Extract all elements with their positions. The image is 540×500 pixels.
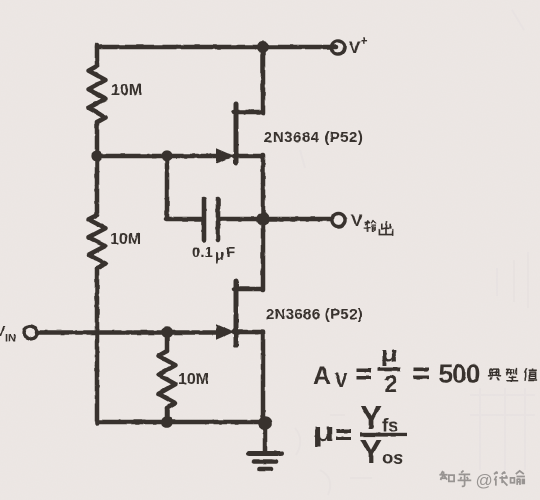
resistor R2 10M (middle left)	[89, 215, 106, 268]
svg-text:10M: 10M	[110, 231, 141, 248]
watermark hanzi 筏	[494, 471, 508, 485]
svg-text:@: @	[476, 471, 493, 490]
wire: left rail middle segment	[95, 122, 100, 215]
wire: output lead	[263, 217, 331, 222]
junction node: bottom rail / R3	[161, 416, 173, 428]
resistor R1 10M (upper left)	[89, 66, 106, 122]
wire: top V+ rail	[97, 45, 336, 50]
watermark 知乎@筏喻	[439, 471, 525, 487]
svg-text:A: A	[313, 362, 331, 390]
formula mu = Yfs/Yos	[313, 399, 408, 470]
transistor Q2 2N3686 channel bar	[234, 281, 239, 345]
ground symbol	[249, 454, 281, 470]
terminal V output	[332, 213, 345, 226]
wire: gate feed of Q1	[97, 154, 218, 159]
transistor Q2 gate arrow	[216, 324, 234, 340]
svg-text:fs: fs	[382, 415, 398, 436]
svg-text:2N3686 (P52): 2N3686 (P52)	[266, 306, 363, 323]
label 型 (hanzi typical)	[506, 368, 518, 381]
svg-text:IN: IN	[5, 333, 16, 345]
terminal V+	[331, 41, 344, 54]
label 出 (output hanzi 2)	[379, 221, 392, 235]
svg-text:μ: μ	[313, 417, 335, 447]
svg-text:+: +	[360, 33, 368, 48]
label 典 (hanzi typical)	[488, 369, 501, 381]
transistor Q2 drain lead	[234, 218, 263, 290]
watermark hanzi 喻	[511, 471, 525, 485]
svg-text:V: V	[335, 370, 349, 392]
svg-text:V: V	[351, 211, 363, 230]
svg-text:2: 2	[384, 371, 397, 398]
junction node: gate wire / capacitor branch	[161, 150, 172, 161]
svg-text:Y: Y	[360, 433, 382, 470]
junction node: top rail / Q1 drain	[257, 41, 269, 53]
transistor Q1 source lead	[234, 155, 263, 221]
junction node: output node	[256, 212, 269, 225]
transistor Q1 drain lead	[234, 45, 263, 113]
svg-text:μ: μ	[381, 343, 398, 367]
transistor Q1 2N3684 channel bar	[234, 104, 239, 163]
watermark hanzi 知	[439, 471, 454, 482]
wire: left rail upper segment	[95, 45, 100, 66]
resistor R3 10M (bottom)	[159, 351, 176, 408]
svg-text:10M: 10M	[178, 371, 209, 388]
watermark hanzi 乎	[458, 471, 472, 487]
wire: capacitor branch from node at (167,156)	[166, 155, 201, 219]
wire: input / gate feed of Q2	[37, 330, 218, 335]
svg-text:F: F	[226, 244, 235, 261]
label 值 (hanzi typical)	[525, 368, 538, 381]
svg-text:Y: Y	[360, 399, 382, 436]
svg-text:500: 500	[439, 359, 480, 389]
wire: R3 to bottom rail	[165, 408, 170, 422]
svg-text:10M: 10M	[111, 82, 142, 99]
junction node: left rail / gate wire	[91, 150, 102, 161]
svg-text:2N3684 (P52): 2N3684 (P52)	[264, 129, 363, 146]
wire: R3 branch vertical	[165, 332, 170, 351]
junction node: input wire / R3 branch	[161, 326, 173, 338]
svg-text:os: os	[382, 447, 404, 468]
transistor Q1 gate arrow	[216, 148, 234, 164]
formula Av = mu/2 = 500	[313, 343, 480, 398]
svg-text:0.1: 0.1	[192, 244, 213, 261]
capacitor C1 0.1uF plates	[204, 199, 218, 240]
wire: ground lead	[263, 421, 268, 452]
wire: capacitor right lead to output node	[221, 217, 264, 222]
faint bleed-through marks (back of page)	[295, 10, 535, 495]
label 输 (output hanzi 1)	[364, 221, 376, 232]
svg-text:μ: μ	[215, 247, 224, 264]
transistor Q2 source lead	[234, 331, 263, 424]
wire: bottom rail	[97, 420, 265, 425]
terminal V input	[24, 326, 37, 339]
wire: left rail lower segment	[95, 268, 100, 424]
junction node: bottom rail / ground	[258, 416, 272, 430]
